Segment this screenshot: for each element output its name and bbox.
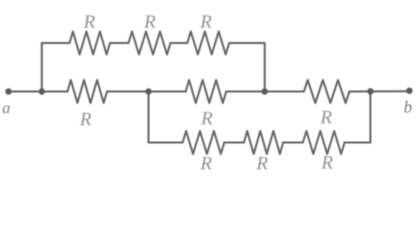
wire: bottom rail between R7 and R8: [224, 142, 244, 144]
label R for resistor R6: [320, 111, 331, 123]
wire: middle rail R5 through junction J2 to R6: [226, 91, 304, 93]
label b (right terminal): [404, 101, 411, 113]
wire: middle rail R6 through junction J4 to node b: [349, 90, 409, 92]
label R for resistor R5: [201, 112, 212, 124]
label R for resistor R8: [256, 157, 267, 169]
wire: top rail R3 to right corner: [229, 42, 265, 44]
label a (left terminal): [3, 105, 10, 113]
label R for resistor R9: [321, 156, 332, 168]
wire: bottom rail R9 to right corner: [345, 142, 371, 144]
label R for resistor R4: [80, 113, 91, 125]
resistor R3 (top row, right, value R): [187, 32, 229, 55]
junction J2: [262, 88, 268, 94]
junction J1: [39, 88, 45, 94]
wire: top rail between R2 and R3: [171, 42, 188, 44]
label R for resistor R3: [200, 15, 211, 27]
wire: bottom rail corner to R7: [149, 142, 183, 144]
wire: vertical drop from junction J3 down to bottom rail: [148, 92, 150, 143]
resistor R2 (top row, middle, value R): [129, 32, 171, 55]
junction J4: [367, 88, 373, 94]
wire: vertical riser from bottom rail up to junction J4: [369, 92, 371, 143]
node b (terminal dot): [406, 88, 412, 94]
label R for resistor R1: [84, 15, 95, 27]
wire: vertical drop from top rail down to junction J2: [264, 43, 266, 92]
wire: node a to junction J1 (middle rail): [9, 91, 42, 93]
resistor R6 (middle row, right, value R): [304, 80, 350, 103]
resistor R5 (middle row, center, value R): [186, 80, 227, 103]
label R for resistor R2: [144, 15, 155, 27]
wire: bottom rail between R8 and R9: [283, 142, 303, 144]
resistor R1 (top row, left, value R): [70, 32, 111, 55]
junction J3: [145, 88, 151, 94]
resistor R7 (bottom row, left, value R): [183, 131, 225, 154]
node a (terminal dot): [5, 88, 11, 94]
wire: top rail segment J1-corner to R1: [42, 42, 70, 44]
wire: top rail between R1 and R2: [110, 42, 129, 44]
resistor R4 (middle row, left, value R): [68, 80, 108, 103]
wire: middle rail J1 to R4: [42, 91, 68, 93]
wire: vertical riser J1 up to top rail: [41, 43, 43, 92]
resistor R9 (bottom row, right, value R): [303, 131, 345, 154]
resistor R8 (bottom row, middle, value R): [244, 131, 283, 154]
wire: middle rail R4 through junction J3 to R5: [107, 91, 186, 93]
label R for resistor R7: [200, 157, 211, 169]
